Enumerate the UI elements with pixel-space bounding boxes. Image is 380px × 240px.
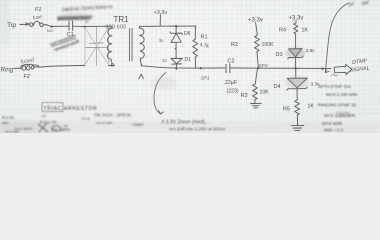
svg-text:TR1: TR1 [114, 15, 130, 24]
svg-text:Ring: Ring [1, 67, 14, 74]
svg-text:(w': (w' [348, 1, 355, 8]
svg-text:+3.3v: +3.3v [248, 18, 263, 24]
svg-text:+3.3v: +3.3v [289, 16, 304, 22]
svg-text:no of ads: no of ads [96, 120, 112, 125]
svg-text:3v: 3v [162, 58, 168, 63]
svg-text:D1: D1 [185, 57, 192, 63]
svg-text:SP3: SP3 [259, 63, 268, 69]
svg-text:R4: R4 [279, 28, 286, 34]
svg-text:NO: NO [47, 28, 53, 33]
svg-text:1K: 1K [308, 104, 315, 110]
svg-text:RINGING DTMF 31: RINGING DTMF 31 [318, 103, 357, 108]
svg-text:(223): (223) [227, 88, 239, 94]
svg-text:xx: xx [64, 123, 68, 128]
svg-text:WITH DTMF DIA: WITH DTMF DIA [318, 84, 351, 89]
svg-text:MIN = 0.2: MIN = 0.2 [324, 128, 344, 133]
svg-text:.22µF: .22µF [224, 80, 237, 86]
svg-text:3.8v: 3.8v [306, 48, 316, 54]
svg-text:C2: C2 [228, 59, 235, 65]
svg-text:MAX 2.19V MIN: MAX 2.19V MIN [326, 92, 357, 97]
svg-text:F2: F2 [24, 74, 30, 80]
svg-text:SP1: SP1 [201, 76, 210, 82]
svg-text:# 3.3V Zener (med),: # 3.3V Zener (med), [162, 120, 207, 126]
svg-text:m.n-5M: m.n-5M [5, 129, 19, 133]
svg-text:F1: F1 [35, 7, 41, 13]
svg-text:Tip: Tip [7, 22, 16, 29]
svg-text:~ lower: ~ lower [130, 122, 144, 127]
svg-text:MAX W/M: MAX W/M [322, 121, 342, 126]
svg-text:D4: D4 [274, 84, 281, 90]
svg-text:6.3 ≥ +5-: 6.3 ≥ +5- [40, 120, 58, 125]
svg-text:D3: D3 [276, 52, 283, 58]
svg-text:R3: R3 [241, 93, 248, 99]
svg-text:R1: R1 [201, 35, 208, 41]
svg-text:600:600: 600:600 [106, 25, 127, 31]
svg-text:RJ-3x: RJ-3x [2, 115, 15, 120]
svg-text:10K: 10K [260, 90, 270, 96]
svg-text:1K: 1K [302, 28, 309, 34]
svg-text:+0': +0' [41, 114, 47, 119]
svg-text:R5: R5 [283, 107, 290, 113]
svg-text:wire: wire [2, 121, 9, 125]
svg-text:100K: 100K [262, 42, 275, 48]
svg-text:R2: R2 [231, 42, 238, 48]
svg-text:+3.3v: +3.3v [154, 10, 168, 16]
svg-text:D6: D6 [184, 31, 191, 37]
svg-text:mA Zoff min 1.25V or 93%V: mA Zoff min 1.25V or 93%V [169, 127, 227, 132]
svg-text:+5 or: +5 or [81, 116, 91, 121]
svg-text:ON JACK : SPEAK: ON JACK : SPEAK [94, 113, 131, 118]
svg-text:TRIAC ARRESTOR: TRIAC ARRESTOR [44, 106, 98, 112]
svg-text:3v: 3v [159, 38, 165, 43]
